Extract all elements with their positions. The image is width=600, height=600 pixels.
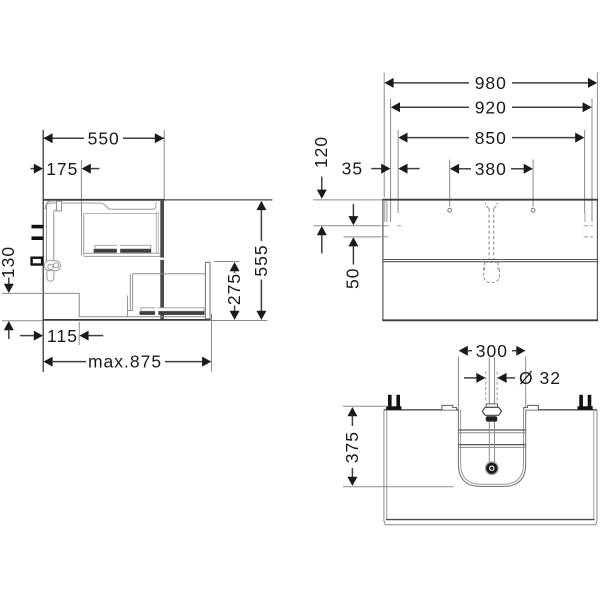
cabinet front panel lower part <box>160 260 164 319</box>
dimension 555 (rotated) <box>251 201 271 320</box>
cabinet underside right side outer <box>596 410 598 521</box>
extension line 50 lower level <box>343 236 381 238</box>
rail bracket tab left <box>442 405 457 409</box>
svg-text:Ø 32: Ø 32 <box>519 368 561 388</box>
svg-text:275: 275 <box>224 273 244 305</box>
drain outlet center <box>490 467 493 470</box>
svg-text:850: 850 <box>475 128 507 148</box>
wall fixing bar lower <box>32 236 44 240</box>
wall line (mounting wall) <box>42 130 44 372</box>
lower drawer slide rail dark bar <box>140 311 205 315</box>
tap hole right <box>531 208 535 212</box>
step line wall recess <box>2 293 206 316</box>
extension line 120 lower level <box>314 225 382 227</box>
drain outlet ring <box>488 464 496 472</box>
trap union circles <box>48 264 53 269</box>
front cabinet top edge <box>382 199 598 201</box>
dimension 300 <box>459 341 526 361</box>
svg-text:555: 555 <box>251 244 271 276</box>
upper drawer back wall <box>82 212 84 256</box>
upper drawer front inner wall <box>156 212 158 254</box>
svg-text:120: 120 <box>311 136 331 168</box>
svg-text:380: 380 <box>475 159 507 179</box>
dimension 850 <box>398 128 584 148</box>
extension line top of 275 dim <box>214 261 240 263</box>
svg-text:920: 920 <box>475 97 507 117</box>
cabinet top extension to 555 dim <box>165 199 273 201</box>
extension line right of 850 dim <box>584 130 586 213</box>
svg-text:130: 130 <box>0 246 18 278</box>
hidden drain pipe (dashed) <box>488 209 490 259</box>
dimension 550 <box>43 129 164 149</box>
extension line right of 920 dim <box>591 99 593 223</box>
upper drawer slide rail dark bar <box>94 249 152 253</box>
hidden drain funnel (dashed) <box>485 203 497 209</box>
extension line right of 380 dim <box>532 160 534 208</box>
upper drawer slide rail boxes <box>95 245 151 249</box>
tap hole left <box>448 208 452 212</box>
extension line right of 300 dim / U cutout right <box>525 357 527 410</box>
drain tailpipe through cutout <box>488 422 490 463</box>
U-shaped siphon cutout inner <box>461 410 524 484</box>
extension line top of 375 dim <box>343 405 389 407</box>
cabinet underside bottom inner edge <box>386 519 595 521</box>
hidden siphon U (dashed) <box>484 268 500 283</box>
extension line right of 980 dim <box>596 73 598 200</box>
dimension 115 (arrows outside) <box>20 326 103 346</box>
cabinet underside bottom outer edge <box>385 524 596 526</box>
bottom right bevel <box>596 521 597 525</box>
bottom left bevel <box>384 521 386 525</box>
extension line right of max.875 dim <box>211 314 213 372</box>
drawer rail crossbar pair 1 <box>458 429 525 431</box>
cabinet top line <box>43 199 165 201</box>
dimension 120 (rotated, outside arrows) <box>311 136 331 254</box>
svg-text:35: 35 <box>342 159 363 179</box>
cabinet bottom extension to 275 and 555 dims <box>211 320 268 322</box>
front cabinet bottom edge <box>382 319 598 321</box>
dimension 275 (rotated) <box>224 262 244 320</box>
svg-text:max.875: max.875 <box>88 352 162 372</box>
lower drawer box top line <box>133 273 206 275</box>
wall outlet socket <box>32 258 42 265</box>
drawer gap lines <box>383 259 598 261</box>
cabinet underside left side inner <box>386 410 388 520</box>
lower drawer front panel pulled out <box>205 262 210 319</box>
extension line left of 380 dim <box>449 160 451 208</box>
basin drain stub <box>57 201 61 204</box>
svg-text:375: 375 <box>342 431 362 463</box>
svg-text:115: 115 <box>47 326 78 346</box>
drain outlet circle outer <box>485 462 498 475</box>
dashes 120 level inside cabinet <box>384 225 593 227</box>
trap lower stub <box>47 271 54 282</box>
dimension 50 (rotated, outside arrows) <box>342 204 362 289</box>
dimension 980 <box>384 73 597 93</box>
hanger bolt right pair <box>579 395 583 409</box>
dimension 920 <box>391 97 592 117</box>
dashes 50 level inside cabinet <box>384 236 593 238</box>
dimension 175 (arrows outside) <box>31 159 100 179</box>
extension line left of 980 dim <box>383 73 385 198</box>
dimension diameter 32 (arrows outside) <box>464 368 561 388</box>
cabinet underside top edge <box>384 409 597 411</box>
drain pipe elbow and vertical run <box>46 201 56 262</box>
extension line left of 920 dim <box>390 99 392 223</box>
upper drawer bottom lines <box>84 252 161 254</box>
drawer rail crossbar pair 2 <box>458 444 525 446</box>
svg-text:980: 980 <box>475 73 507 93</box>
extension line bottom of 375 dim <box>343 486 454 488</box>
extension line left of 850 dim <box>397 130 399 213</box>
rail bracket tab right <box>524 405 539 409</box>
dimension max.875 <box>43 352 211 372</box>
cabinet bottom line <box>43 319 211 321</box>
upper drawer top line <box>84 212 159 214</box>
U-shaped siphon cutout outer <box>458 410 525 487</box>
dimension 380 <box>450 159 533 179</box>
dashed extension lines of pipe diameter <box>485 372 487 402</box>
extension line basin top level (left of cabinet) <box>314 199 383 201</box>
pipe rubber seal band <box>486 416 498 421</box>
drain tailpipe above nut <box>488 358 490 405</box>
extension line right of 550 dim <box>163 130 165 199</box>
svg-text:550: 550 <box>88 129 120 149</box>
hidden siphon box (dashed) <box>485 262 498 271</box>
wall fixing bar upper <box>32 225 44 229</box>
extension line below 115 dim <box>78 322 80 345</box>
extension line left of 300 dim / U cutout left <box>457 357 459 410</box>
dimension 375 (rotated) <box>342 407 362 486</box>
pipe union nut hexagon <box>486 404 497 407</box>
extension line right of 175 dim <box>80 160 82 212</box>
cabinet underside left side outer <box>383 410 385 521</box>
hanger bolt left pair <box>388 395 392 409</box>
dimension 35 (horizontal, arrows outside) <box>342 159 420 179</box>
svg-text:300: 300 <box>476 341 508 361</box>
drain pipe coupling nut <box>57 201 62 211</box>
dimension 130 (rotated, far left) <box>0 246 43 339</box>
lower drawer slide rail boxes <box>141 308 204 312</box>
lower drawer back wall <box>127 274 132 317</box>
bottle trap body <box>44 261 60 271</box>
svg-text:50: 50 <box>342 268 362 289</box>
washbasin section profile <box>45 202 156 209</box>
svg-text:175: 175 <box>46 159 78 179</box>
cabinet underside right side inner <box>593 410 595 520</box>
front cabinet right side <box>596 200 598 321</box>
front cabinet left side <box>382 200 384 321</box>
cabinet front panel upper drawer <box>160 201 164 258</box>
